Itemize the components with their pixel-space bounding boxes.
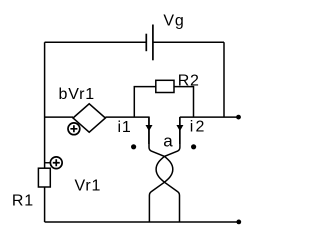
terminal dot upper right [236, 115, 241, 120]
wire bottom rail [45, 221, 239, 223]
wire top-right (battery to right corner) [153, 41, 224, 43]
svg-text:bVr1: bVr1 [59, 86, 95, 103]
svg-text:Vr1: Vr1 [75, 177, 102, 194]
resistor R1 body [38, 168, 50, 187]
svg-text:i2: i2 [190, 119, 207, 136]
transformer twisted winding right wire [156, 117, 180, 222]
svg-text:R2: R2 [178, 73, 200, 90]
coupling dot right [191, 144, 196, 149]
coupling dot left [131, 144, 136, 149]
wire diamond right to i1 corner and drop [105, 117, 148, 144]
wire diamond feed left [45, 116, 73, 118]
polarity marker plus circle of bVr1 [68, 123, 80, 135]
svg-text:Vg: Vg [163, 13, 184, 30]
resistor R2 body [156, 80, 174, 92]
wire left rail [44, 42, 46, 222]
svg-text:i1: i1 [118, 119, 132, 136]
dependent source bVr1 diamond [73, 104, 105, 132]
current arrow i1 [146, 125, 153, 131]
transformer twisted winding left wire [149, 117, 173, 222]
battery source Vg long plate [152, 25, 154, 61]
wire R2 left branch [134, 87, 156, 118]
polarity marker plus circle of Vr1 with stub [45, 157, 63, 169]
wire right drop (top corner down to node) [223, 42, 225, 117]
svg-text:R1: R1 [12, 192, 34, 209]
svg-text:a: a [163, 132, 173, 151]
wire top-left (top rail from left corner to battery) [45, 41, 147, 43]
terminal dot lower right [236, 220, 241, 225]
battery source Vg short plate [145, 34, 147, 52]
wire R2 right branch [174, 87, 194, 118]
current arrow i2 [176, 125, 183, 131]
wire right node horizontal (i2 corner to terminal) [180, 117, 239, 144]
